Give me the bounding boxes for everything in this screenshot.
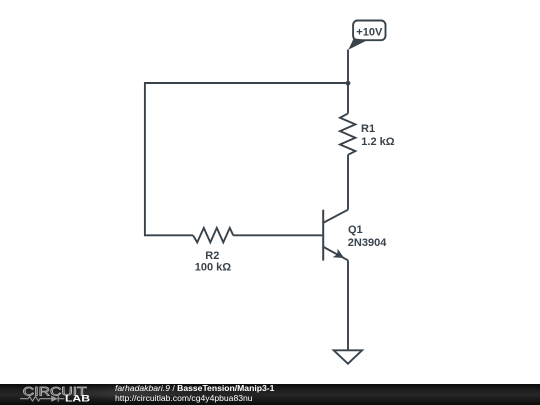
svg-text:LAB: LAB [65,393,90,403]
svg-text:R1: R1 [361,123,375,135]
svg-text:2N3904: 2N3904 [348,237,387,249]
svg-text:1.2 kΩ: 1.2 kΩ [361,136,394,148]
svg-text:+10V: +10V [356,26,383,38]
svg-text:R2: R2 [205,250,219,262]
svg-text:100 kΩ: 100 kΩ [195,262,232,274]
svg-text:Q1: Q1 [348,224,363,236]
